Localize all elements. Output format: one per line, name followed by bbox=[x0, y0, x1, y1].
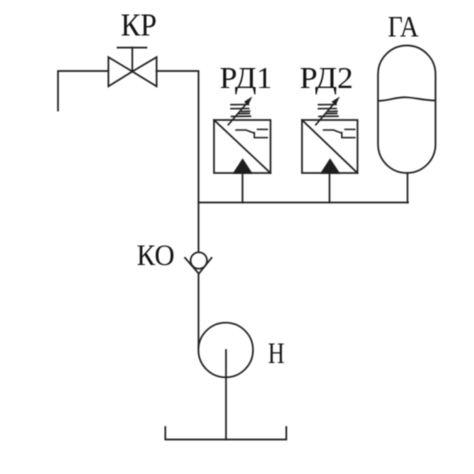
svg-text:ГА: ГА bbox=[388, 10, 419, 43]
relay RD1 arrow (filled) bbox=[234, 160, 251, 173]
check valve KO ball bbox=[191, 252, 207, 268]
svg-text:РД1: РД1 bbox=[220, 60, 273, 95]
relay RD2 arrow (filled) bbox=[322, 160, 339, 173]
check valve KO seat bbox=[185, 258, 212, 274]
tank bbox=[165, 427, 286, 440]
accumulator GA capsule bbox=[378, 46, 436, 174]
relay RD1 diagonal bbox=[214, 120, 271, 173]
wire RD1 drop bbox=[242, 173, 244, 203]
wire main vertical below check valve bbox=[198, 274, 200, 348]
wire valve to main vertical bbox=[157, 71, 199, 252]
relay RD2 box bbox=[302, 120, 358, 173]
wire GA drop bbox=[407, 173, 409, 203]
relay RD1 contact bbox=[236, 129, 267, 137]
svg-text:РД2: РД2 bbox=[300, 60, 354, 95]
relay RD2 diagonal bbox=[302, 120, 358, 173]
relay RD1 spring bbox=[231, 105, 251, 117]
wire pump to tank bbox=[225, 350, 227, 440]
svg-text:КО: КО bbox=[137, 239, 175, 272]
svg-text:Н: Н bbox=[268, 337, 285, 370]
relay RD2 spring bbox=[319, 105, 339, 117]
relay RD2 adjust arrow bbox=[316, 97, 340, 125]
valve KP right triangle bbox=[132, 57, 156, 86]
valve KP left triangle bbox=[108, 57, 132, 86]
relay RD1 adjust arrow bbox=[228, 97, 252, 125]
svg-text:КР: КР bbox=[121, 6, 157, 42]
pump H circle bbox=[198, 323, 253, 378]
wire manifold bbox=[199, 202, 409, 204]
valve KP T-bar bbox=[118, 47, 147, 49]
wire left stub bbox=[58, 71, 108, 111]
wire RD2 drop bbox=[329, 173, 331, 203]
relay RD2 contact bbox=[324, 129, 355, 137]
valve KP stem bbox=[131, 48, 133, 72]
relay RD1 box bbox=[214, 120, 271, 173]
accumulator GA liquid wave bbox=[379, 97, 435, 101]
